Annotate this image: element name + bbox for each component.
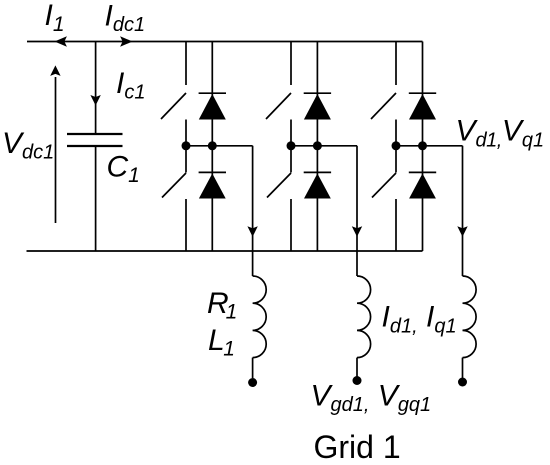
wire: phase B to grid terminal xyxy=(356,358,358,378)
wire: leg A midpoint to output xyxy=(186,145,253,147)
junction dot leg C switch midpoint xyxy=(392,141,401,150)
current arrow Ic1 on capacitor branch (pointing down) xyxy=(90,95,100,106)
wire: phase A to grid terminal xyxy=(252,358,254,378)
switch S1c upper (wire + blade + wire) xyxy=(371,42,396,146)
wire: top DC rail xyxy=(27,41,423,43)
junction dot leg C diode midpoint xyxy=(418,141,427,150)
diode D2c lower xyxy=(409,146,436,251)
terminal node phase A xyxy=(248,378,257,387)
current arrow phase A (pointing down) xyxy=(247,226,257,237)
wire: phase C output drop xyxy=(462,146,464,276)
terminal node phase C xyxy=(458,378,467,387)
switch S1b upper (wire + blade + wire) xyxy=(266,42,291,146)
wire: bottom DC rail xyxy=(27,250,423,252)
inductor L1a coil xyxy=(253,276,267,358)
diode D2a lower xyxy=(199,146,226,251)
diode D2b lower xyxy=(304,146,331,251)
inductor L1c coil xyxy=(463,276,477,358)
switch S2c lower (wire + blade + wire) xyxy=(372,146,396,251)
diode D1a upper xyxy=(199,42,226,146)
inductor L1b coil xyxy=(357,276,371,358)
switch S2b lower (wire + blade + wire) xyxy=(267,146,291,251)
junction dot leg A switch midpoint xyxy=(182,141,191,150)
diode D1c upper xyxy=(409,42,436,146)
junction dot leg A diode midpoint xyxy=(208,141,217,150)
junction dot leg B switch midpoint xyxy=(287,141,296,150)
switch S1a upper (wire + blade + wire) xyxy=(161,42,186,146)
terminal node phase B xyxy=(353,376,362,385)
current arrow Idc1 on top rail (pointing right) xyxy=(120,36,132,47)
svg-text:Grid 1: Grid 1 xyxy=(314,429,401,465)
current arrow phase C (pointing down) xyxy=(457,226,467,237)
wire: phase A output drop xyxy=(252,146,254,276)
wire: capacitor branch lower xyxy=(95,146,97,251)
wire: leg C midpoint to output xyxy=(396,145,463,147)
wire: leg B midpoint to output xyxy=(291,145,357,147)
capacitor C1 plates xyxy=(67,134,123,146)
voltage arrow Vdc1 (pointing up) xyxy=(50,65,60,223)
junction dot leg B diode midpoint xyxy=(313,141,322,150)
wire: phase B output drop xyxy=(356,146,358,276)
diode D1b upper xyxy=(304,42,331,146)
wire: capacitor branch upper xyxy=(95,42,97,135)
current arrow phase B (pointing down) xyxy=(352,226,362,237)
wire: phase C to grid terminal xyxy=(462,358,464,378)
current arrow I1 on top rail (pointing left) xyxy=(55,36,67,47)
switch S2a lower (wire + blade + wire) xyxy=(162,146,186,251)
